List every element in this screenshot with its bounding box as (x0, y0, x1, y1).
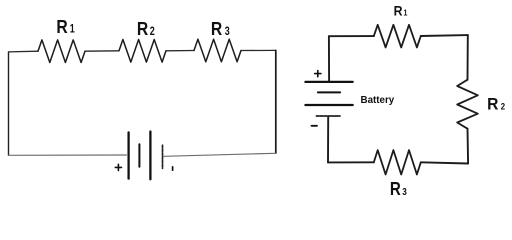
svg-text:R: R (137, 18, 149, 40)
label R1 (right circuit) (394, 3, 408, 19)
svg-text:3: 3 (402, 185, 407, 197)
battery (left circuit) negative plate 2 (162, 145, 164, 168)
svg-text:R: R (211, 18, 223, 40)
battery (left circuit) positive plate 1 (127, 132, 129, 178)
svg-text:R: R (390, 179, 401, 200)
label R3 (right circuit) (390, 179, 407, 200)
battery (right circuit) negative plate 1 (318, 91, 340, 93)
resistor R2 (left circuit) (119, 40, 166, 63)
svg-text:R: R (56, 16, 68, 38)
wire: right circuit left vertical upper (328, 36, 330, 81)
wire: right circuit bottom-left segment (328, 161, 374, 163)
wire: left circuit top-left segment (9, 50, 39, 53)
wire: right circuit top-right segment (421, 34, 468, 37)
svg-text:2: 2 (501, 101, 505, 112)
svg-text:R: R (487, 95, 498, 114)
wire: left circuit right vertical (275, 50, 277, 153)
battery (right circuit) positive plate 2 (305, 104, 352, 106)
svg-text:Battery: Battery (361, 95, 395, 106)
svg-text:1: 1 (70, 24, 75, 36)
battery (left circuit) positive plate 2 (149, 132, 151, 180)
wire: left circuit top-right segment (241, 49, 276, 51)
label + (right battery) (315, 71, 321, 77)
resistor R2 (right circuit) (457, 80, 478, 129)
label + (left battery) (115, 164, 121, 170)
wire: right circuit left vertical lower (327, 117, 329, 163)
battery (right circuit) negative plate 2 (316, 115, 340, 117)
label R1 (left circuit) (56, 16, 75, 38)
wire: left circuit left vertical (8, 52, 10, 155)
battery (right circuit) positive plate 1 (305, 81, 352, 83)
wire: right circuit bottom-right segment (421, 162, 468, 163)
svg-text:R: R (394, 3, 403, 19)
resistor R1 (left circuit) (38, 40, 85, 63)
wire: right circuit right vertical upper (467, 35, 469, 80)
svg-text:1: 1 (404, 8, 408, 18)
battery (left circuit) negative plate 1 (138, 144, 140, 166)
label R2 (right circuit) (487, 95, 505, 114)
wire: left circuit between R1 and R2 (85, 50, 119, 52)
svg-text:2: 2 (150, 26, 155, 38)
label - (right battery) (312, 125, 318, 127)
resistor R3 (right circuit) (374, 150, 421, 174)
label R2 (left circuit) (137, 18, 155, 40)
svg-text:3: 3 (225, 26, 230, 38)
label - (left battery) (172, 167, 174, 170)
resistor R3 (left circuit) (194, 39, 241, 62)
label R3 (left circuit) (211, 18, 230, 40)
wire: right circuit top-left segment (329, 35, 374, 37)
wire: battery to left circuit bottom-right (164, 153, 276, 156)
resistor R1 (right circuit) (374, 25, 421, 48)
wire: left circuit between R2 and R3 (166, 50, 194, 52)
wire: left circuit bottom-left to battery (9, 154, 127, 156)
wire: right circuit right vertical lower (467, 129, 470, 164)
